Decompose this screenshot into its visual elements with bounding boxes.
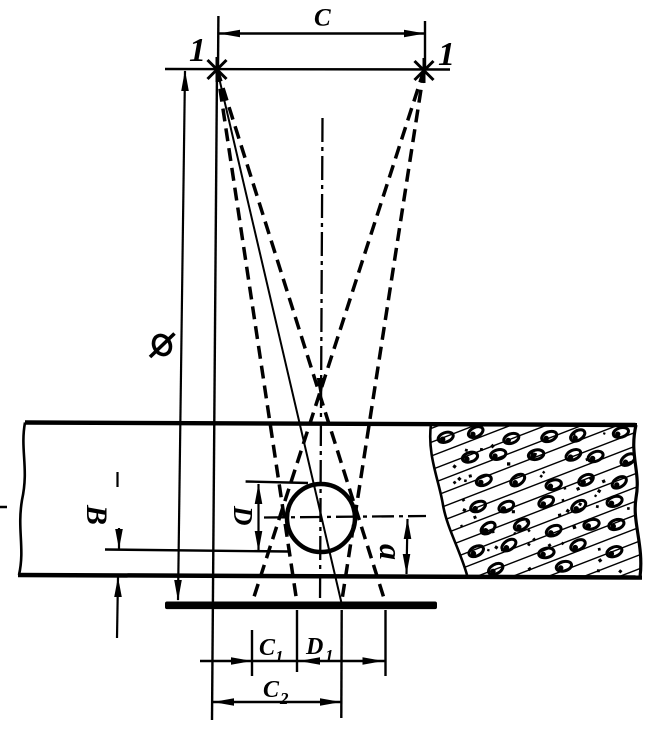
dimension F (focus distance) line — [174, 70, 189, 601]
extension line below film at shadow left — [296, 610, 298, 672]
ray S1 to right shadow edge (dashed) — [217, 69, 386, 603]
extension line below film at shadow right — [384, 610, 386, 676]
extension line above left source — [217, 16, 220, 69]
slab bottom edge — [18, 575, 642, 578]
extension line below film at C1 left — [251, 630, 253, 676]
extension line top of defect — [246, 482, 308, 484]
ray S2 to right shadow edge (dashed) — [342, 70, 425, 603]
source line (focal plane) — [165, 68, 450, 71]
svg-text:D: D — [228, 505, 258, 526]
defect horizontal center line — [264, 516, 426, 518]
svg-text:1: 1 — [325, 646, 334, 665]
svg-text:C: C — [263, 677, 280, 703]
dimension B lower arrow — [114, 577, 122, 638]
edge tick — [0, 506, 7, 509]
svg-text:1: 1 — [275, 647, 284, 666]
label F (phi) — [150, 332, 175, 357]
extension line above right source — [424, 21, 426, 70]
svg-text:B: B — [80, 504, 113, 525]
slab left break line — [19, 423, 25, 576]
dimension line C2 — [213, 698, 342, 706]
ray S1 central through defect (solid) — [217, 69, 342, 603]
dimension line C1 / D1 — [200, 657, 386, 665]
extension line bottom of defect — [105, 550, 288, 552]
svg-text:1: 1 — [189, 32, 206, 69]
dimension D — [255, 484, 263, 552]
svg-text:C: C — [259, 635, 276, 661]
source position marker right (X) — [415, 58, 434, 83]
central axis (dash-dot) with arrow — [317, 118, 325, 602]
dimension a — [403, 519, 412, 575]
svg-text:D: D — [305, 634, 323, 660]
slab top edge — [25, 423, 637, 426]
defect circle — [287, 484, 355, 552]
ray S1 to left shadow edge (dashed) — [217, 69, 297, 603]
svg-text:a: a — [373, 544, 409, 560]
vertical line below left source — [212, 69, 217, 720]
ray S2 to left shadow edge (dashed) — [252, 70, 424, 603]
svg-text:C: C — [314, 5, 331, 32]
aggregate texture boundary — [430, 424, 467, 575]
extension line below film at central ray — [340, 610, 343, 718]
dimension C line — [219, 30, 425, 37]
dimension B upper arrow — [115, 472, 123, 549]
svg-text:1: 1 — [438, 36, 455, 73]
film — [165, 602, 437, 610]
slab right break line — [634, 425, 641, 577]
source position marker left (X) — [208, 57, 227, 82]
svg-text:2: 2 — [279, 689, 289, 708]
